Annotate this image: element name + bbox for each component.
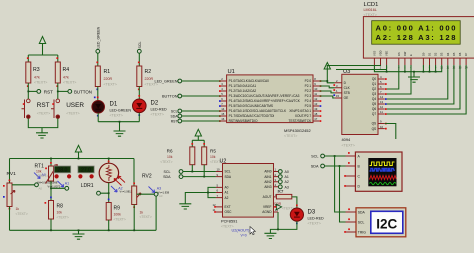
svg-text:Q4: Q4 — [372, 97, 376, 101]
svg-text:BUTTON: BUTTON — [74, 89, 92, 94]
wire RV2 to bottom rail — [134, 196, 156, 230]
wire U3 QS out — [385, 124, 396, 140]
wire U1 P2.1 to U3 CLK — [319, 86, 334, 88]
svg-text:P1.0/TA0CLK/ACLK/A0/CA0: P1.0/TA0CLK/ACLK/A0/CA0 — [229, 79, 270, 83]
ground analog section — [73, 234, 85, 239]
ground under LCD — [408, 77, 420, 82]
svg-text:P1.1/TA0.0/A1/CA1: P1.1/TA0.0/A1/CA1 — [229, 84, 257, 88]
svg-text:P2.5: P2.5 — [305, 104, 312, 108]
thermistor RT1 — [35, 159, 58, 184]
U1 left pin numbers — [221, 77, 225, 121]
U3 right pin stubs Q0-Q7 — [378, 79, 385, 129]
svg-text:11: 11 — [314, 92, 317, 96]
svg-text:<TEXT>: <TEXT> — [151, 113, 164, 117]
svg-text:SCL: SCL — [225, 170, 231, 174]
node LED_GREEN terminal above R1 — [96, 26, 101, 53]
junction LDR/R9/A2 — [108, 192, 110, 194]
svg-text:LED-RED: LED-RED — [308, 217, 325, 221]
node LED_GREEN at U1 — [154, 79, 220, 84]
svg-text:17: 17 — [314, 117, 318, 121]
wire R2 to D2 — [138, 87, 140, 100]
U3 left pin names — [344, 81, 351, 100]
oscilloscope — [344, 152, 402, 191]
svg-text:A3: A3 — [157, 187, 161, 191]
wire LDR to node A2 and R9 — [100, 183, 108, 203]
U2 EXT/OSC tips — [214, 206, 216, 208]
svg-text:15: 15 — [336, 94, 340, 98]
resistor R3 — [26, 57, 48, 87]
svg-text:AIN1: AIN1 — [264, 175, 271, 179]
svg-text:U2: U2 — [220, 159, 227, 165]
svg-text:12: 12 — [380, 105, 384, 109]
node A2 analog — [97, 191, 101, 195]
svg-text:LCD1: LCD1 — [364, 2, 379, 8]
wire LCD E to U3 Q3 — [387, 65, 411, 94]
svg-text:RST: RST — [171, 120, 178, 124]
junctions on VCC rail — [50, 158, 110, 160]
svg-text:SDA: SDA — [163, 175, 171, 179]
svg-text:CLK: CLK — [344, 86, 351, 90]
resistor R9 — [106, 199, 126, 222]
svg-text:U1: U1 — [228, 69, 235, 75]
U3 right pin numbers and tips — [380, 75, 384, 129]
wire R1 to D1 — [97, 87, 99, 101]
svg-text:RS: RS — [397, 52, 401, 56]
svg-text:18: 18 — [314, 112, 318, 116]
svg-text:AOUT: AOUT — [263, 195, 272, 199]
svg-text:OSC: OSC — [225, 210, 233, 214]
power arrow analog section — [75, 145, 81, 158]
pot RV1 — [3, 159, 28, 216]
wire VEE aux — [336, 69, 387, 71]
svg-text:10k: 10k — [167, 155, 173, 159]
svg-text:<TEXT>: <TEXT> — [57, 215, 69, 219]
svg-text:P2.4: P2.4 — [305, 99, 312, 103]
svg-text:P2.1: P2.1 — [305, 84, 312, 88]
wire R4 to button USER — [57, 83, 59, 99]
svg-text:AIN3: AIN3 — [264, 185, 271, 189]
svg-text:SDA: SDA — [171, 115, 179, 119]
wire R6 to SCL row — [191, 165, 193, 172]
probe A3 — [149, 187, 170, 199]
svg-text:<TEXT>: <TEXT> — [36, 174, 48, 178]
svg-text:19: 19 — [314, 107, 318, 111]
U1 right pin names — [289, 79, 313, 123]
wire RV2 wiper to node A3 — [137, 193, 155, 195]
svg-text:Q5: Q5 — [372, 102, 376, 106]
LED D3 (red, on) — [290, 205, 324, 226]
node RST at U1 — [171, 119, 221, 124]
wire SCL to R2 — [138, 53, 140, 66]
ground under buttons — [36, 133, 48, 138]
svg-text:A0: A0 — [285, 170, 289, 174]
wire buttons to ground rail — [28, 119, 58, 133]
svg-text:Q0: Q0 — [372, 77, 376, 81]
svg-text:A2: A2 — [285, 180, 289, 184]
ground under D3 — [264, 233, 276, 238]
svg-text:1k: 1k — [16, 207, 20, 211]
LCD pin name labels — [372, 50, 468, 56]
wire D1/D2 ground rail — [98, 113, 139, 131]
power arrow above R5/R6 — [195, 129, 201, 140]
svg-text:11: 11 — [380, 110, 383, 114]
svg-text:RW: RW — [403, 51, 407, 56]
op IC U2 PCF8591 — [220, 159, 274, 229]
LED D1 (green, off) — [92, 97, 131, 118]
wire LCD RS to U3 Q2 — [387, 65, 399, 89]
U1 right pin numbers — [314, 77, 318, 121]
wire R9 to bottom rail — [108, 220, 110, 230]
svg-text:U2(AOUT): U2(AOUT) — [232, 228, 251, 232]
svg-text:RST/NMI/SBWTDIO: RST/NMI/SBWTDIO — [229, 119, 258, 123]
svg-text:10: 10 — [217, 168, 221, 172]
resistor R5 — [202, 143, 223, 165]
svg-text:A1: A1 — [65, 182, 69, 186]
svg-text:<TEXT>: <TEXT> — [104, 83, 117, 87]
wire U1 P2.2 to U3 STB — [319, 91, 334, 93]
node SCL at U1 — [171, 109, 221, 114]
svg-text:13: 13 — [314, 102, 318, 106]
svg-text:D5: D5 — [452, 52, 456, 56]
resistor R1 — [95, 62, 117, 91]
svg-text:BUTTON: BUTTON — [162, 95, 178, 99]
svg-text:R2: R2 — [145, 69, 152, 75]
wire LED_GREEN to R1 — [97, 53, 99, 66]
power VCC arrow top-left — [39, 37, 45, 56]
svg-text:P2.2: P2.2 — [305, 89, 312, 93]
svg-text:SCL: SCL — [138, 42, 142, 49]
ground under D1/D2 — [114, 131, 126, 136]
switch RST pushbutton — [22, 99, 51, 118]
svg-text:LM016L: LM016L — [364, 8, 377, 12]
svg-text:14: 14 — [221, 107, 225, 111]
node RST terminal — [27, 89, 53, 94]
node A3 at U2 — [278, 185, 288, 189]
probe label U2(AOUT) — [232, 228, 251, 237]
resistor R6 — [160, 143, 195, 165]
svg-text:R1: R1 — [104, 69, 111, 75]
svg-text:28.0: 28.0 — [57, 168, 67, 174]
power arrow between U1 and U3 — [324, 63, 330, 83]
svg-text:16: 16 — [221, 117, 225, 121]
svg-text:A2: A2 — [225, 196, 229, 200]
svg-text:Q3: Q3 — [372, 92, 376, 96]
wire U2 address pins A0/A1/A2 to ground — [185, 187, 216, 203]
wire AGND and D3 to ground — [270, 212, 297, 233]
svg-text:VREF: VREF — [263, 205, 272, 209]
op IC U3 4094 — [342, 69, 379, 148]
svg-text:SDA: SDA — [311, 165, 319, 169]
LDR LDR1 — [81, 159, 125, 190]
svg-text:P2.3: P2.3 — [305, 94, 312, 98]
U2 left pin names — [225, 170, 233, 215]
wire SCL junction to I2C debugger — [335, 156, 346, 212]
svg-text:VEE: VEE — [385, 51, 389, 56]
svg-text:<TEXT>: <TEXT> — [110, 114, 123, 118]
mouse cursor — [250, 227, 255, 235]
svg-text:<TEXT>: <TEXT> — [114, 217, 126, 221]
resistor R8 — [45, 197, 69, 220]
LCD pin numbers — [374, 67, 468, 70]
wire R3 to button RST — [27, 83, 29, 99]
U1 right pin stubs — [313, 81, 319, 121]
node SCL at U2 — [164, 170, 216, 174]
svg-text:P2.0: P2.0 — [305, 79, 312, 83]
wire R8 to bottom rail — [50, 219, 52, 230]
svg-text:R3: R3 — [33, 67, 40, 73]
wire D1 to ground rail — [97, 113, 99, 122]
svg-text:AGND: AGND — [262, 210, 272, 214]
svg-text:I2C: I2C — [376, 217, 397, 232]
svg-text:A1: A1 — [285, 175, 289, 179]
wire analog bottom rail — [10, 230, 157, 234]
svg-text:D1: D1 — [428, 52, 432, 56]
svg-text:Q6: Q6 — [372, 107, 376, 111]
node SDA at U2 — [163, 175, 216, 179]
resistor R2 — [137, 62, 158, 91]
LDR1 value display — [78, 166, 94, 178]
svg-text:R8: R8 — [57, 204, 64, 210]
wire U1 P2.3 to U3 OE — [319, 96, 334, 98]
wire R5/R6 top rail — [192, 140, 204, 147]
svg-text:<TEXT>: <TEXT> — [160, 160, 172, 164]
U2 left pin numbers — [213, 168, 221, 213]
svg-text:10k: 10k — [210, 155, 216, 159]
svg-text:<TEXT>: <TEXT> — [284, 134, 297, 138]
svg-text:Q2: Q2 — [372, 87, 376, 91]
svg-text:P1.4/TA0.2/SMCLK/A4/VREF+/VERE: P1.4/TA0.2/SMCLK/A4/VREF+/VEREF+/CA4/TCK — [229, 99, 301, 103]
svg-text:SDA: SDA — [225, 175, 232, 179]
resistor R7 — [273, 189, 294, 210]
node BUTTON at U1 — [162, 94, 221, 99]
svg-text:MSP430G2452: MSP430G2452 — [284, 128, 311, 133]
svg-text:LED_GREEN: LED_GREEN — [97, 26, 101, 48]
svg-text:SDA: SDA — [358, 211, 366, 215]
svg-text:LED-GREEN: LED-GREEN — [110, 109, 132, 113]
U2 right pin numbers — [275, 168, 279, 212]
svg-text:V=0: V=0 — [241, 233, 247, 237]
wire LCD D5 to U3 Q5 — [387, 65, 454, 104]
svg-text:V+=1.9812: V+=1.9812 — [120, 189, 133, 193]
svg-text:<TEXT>: <TEXT> — [63, 80, 76, 84]
wire analog VCC rail — [10, 158, 135, 160]
node SCL terminal above R2 — [137, 42, 142, 54]
svg-text:R9: R9 — [114, 206, 121, 212]
svg-text:10k: 10k — [57, 210, 63, 214]
svg-text:R6: R6 — [167, 149, 173, 154]
svg-text:R4: R4 — [63, 67, 70, 73]
svg-text:VSS: VSS — [372, 51, 376, 56]
wire R7 to D3 — [292, 197, 297, 208]
svg-text:AIN0: AIN0 — [264, 170, 271, 174]
svg-text:TEST/SBWTCK: TEST/SBWTCK — [289, 119, 313, 123]
node A2 at U2 — [278, 180, 288, 184]
node A1 analog — [65, 186, 69, 190]
svg-text:<TEXT>: <TEXT> — [34, 80, 47, 84]
wire VCC rail to R3/R4 — [28, 55, 58, 62]
svg-text:R5: R5 — [210, 149, 216, 154]
node A0 at U2 — [278, 170, 288, 174]
power terminal at VREF — [275, 204, 282, 209]
svg-text:<TEXT>: <TEXT> — [66, 112, 79, 116]
wire VDD to VCC — [327, 65, 380, 69]
svg-text:P1.2/TA0.1/A2/CA2: P1.2/TA0.1/A2/CA2 — [229, 89, 257, 93]
svg-text:<TEXT>: <TEXT> — [16, 212, 28, 216]
svg-text:E: E — [409, 54, 413, 56]
node SCL at scope — [311, 154, 345, 159]
svg-text:AIN2: AIN2 — [264, 180, 271, 184]
junction A1 bus — [207, 192, 209, 194]
svg-text:USER: USER — [66, 102, 84, 109]
node A0 analog — [35, 183, 43, 191]
U2 right pin names — [262, 170, 272, 215]
junctions bottom rail — [50, 229, 135, 231]
svg-text:XOUT/P2.7: XOUT/P2.7 — [295, 114, 312, 118]
svg-text:SCL: SCL — [311, 155, 318, 159]
svg-text:XIN/P2.6/TA0.1: XIN/P2.6/TA0.1 — [289, 109, 311, 113]
U1 left pin names — [229, 79, 301, 123]
svg-text:15: 15 — [221, 112, 225, 116]
svg-text:RST: RST — [44, 89, 53, 94]
svg-text:10: 10 — [380, 125, 384, 129]
svg-text:100k: 100k — [114, 212, 122, 216]
svg-text:LED_GREEN: LED_GREEN — [154, 80, 177, 84]
I2C debugger — [344, 208, 406, 237]
svg-text:LED-RED: LED-RED — [151, 108, 168, 112]
svg-text:47k: 47k — [34, 76, 40, 80]
svg-text:<TEXT>: <TEXT> — [37, 112, 50, 116]
U2 right pin stubs — [274, 172, 279, 213]
svg-text:1k: 1k — [140, 210, 144, 214]
svg-text:P1.3/ADC10CLK/CAOUT/A3/VREF-/V: P1.3/ADC10CLK/CAOUT/A3/VREF-/VEREF-/CA3 — [229, 94, 300, 98]
probe A1 — [48, 181, 70, 188]
node A1 at U2 — [278, 175, 288, 179]
svg-text:Q7: Q7 — [372, 112, 376, 116]
probe A0 — [34, 173, 58, 185]
svg-text:27.0: 27.0 — [81, 168, 91, 174]
U3 right pin names — [372, 77, 377, 131]
svg-text:<TEXT>: <TEXT> — [308, 222, 321, 226]
junction RT1/R8/A1 — [50, 187, 52, 189]
wire LCD ground rail VSS/VEE/RW/D0-D3 — [374, 65, 441, 77]
U1 right pin tips — [320, 80, 322, 122]
U1 left pin stubs — [221, 81, 227, 121]
wire RV1 wiper to node A0 — [12, 184, 35, 186]
svg-text:47k: 47k — [63, 76, 69, 80]
svg-text:A0: A0 — [39, 187, 43, 191]
svg-text:SCL: SCL — [358, 221, 365, 225]
svg-text:10k: 10k — [36, 169, 42, 173]
svg-text:<TEXT>: <TEXT> — [140, 215, 152, 219]
svg-text:<TEXT>: <TEXT> — [342, 143, 355, 147]
svg-text:P1.5/TA0.0/SCLK/A5/CA5/TMS: P1.5/TA0.0/SCLK/A5/CA5/TMS — [229, 104, 273, 108]
svg-text:P1.7/SDI/SDA/A7/CA7/TDO/TDI: P1.7/SDI/SDA/A7/CA7/TDO/TDI — [229, 114, 275, 118]
U3 left pin stubs — [335, 83, 342, 98]
LCD pin stubs — [374, 58, 466, 65]
svg-text:12: 12 — [314, 97, 318, 101]
LED D2 (red, on) — [133, 95, 168, 117]
svg-text:STB: STB — [344, 91, 350, 95]
wire LCD D7 to U3 Q7 — [387, 65, 466, 114]
op IC U1 MSP430G2452 — [227, 69, 313, 138]
svg-text:D1: D1 — [110, 102, 118, 108]
svg-text:220R: 220R — [104, 77, 113, 81]
ground for U2 address — [179, 204, 191, 209]
svg-text:10: 10 — [314, 87, 318, 91]
svg-text:D6: D6 — [458, 52, 462, 56]
junction D1/D2 rail — [119, 121, 121, 123]
svg-text:SCL: SCL — [164, 170, 171, 174]
svg-text:A3: A3 — [285, 185, 289, 189]
svg-text:P1.6/TA0.1/SDO/SCL/A6/CA6/TDI/: P1.6/TA0.1/SDO/SCL/A6/CA6/TDI/TCLK — [229, 109, 287, 113]
junction AGND rail — [277, 229, 279, 231]
RT1 value display — [54, 166, 71, 178]
svg-text:14: 14 — [380, 95, 384, 99]
junction power/P2.0 — [326, 80, 328, 82]
svg-text:D4: D4 — [446, 52, 450, 56]
svg-text:RST: RST — [37, 102, 50, 109]
U2 left pin stubs — [216, 172, 223, 213]
wire U1 P2.0 to U3 D — [319, 81, 334, 83]
svg-text:LDR1: LDR1 — [81, 183, 94, 189]
svg-text:Q1: Q1 — [372, 82, 376, 86]
svg-text:D0: D0 — [421, 52, 425, 56]
svg-text:EXT: EXT — [225, 205, 231, 209]
svg-text:V+=1.8072: V+=1.8072 — [48, 184, 61, 188]
svg-text:13: 13 — [380, 100, 384, 104]
node A3 analog — [154, 192, 158, 196]
svg-text:TRIG: TRIG — [358, 231, 366, 235]
resistor R4 — [55, 57, 76, 87]
svg-text:D2: D2 — [434, 52, 438, 56]
wire RV1 to bottom rail — [9, 207, 11, 231]
svg-text:R7: R7 — [278, 189, 284, 194]
svg-text:PCF8591: PCF8591 — [221, 219, 237, 224]
probe A2 — [111, 186, 133, 193]
svg-text:A1: A1 — [225, 191, 229, 195]
svg-text:220R: 220R — [145, 77, 154, 81]
wire LCD D6 to U3 Q6 — [387, 65, 460, 109]
U3 left pin numbers — [336, 79, 340, 98]
node SDA at U1 — [171, 114, 221, 119]
svg-text:QS: QS — [372, 122, 377, 126]
svg-text:4094: 4094 — [342, 137, 351, 142]
junctions on LCD ground rail — [386, 71, 437, 73]
svg-text:D7: D7 — [464, 52, 468, 56]
svg-text:VDD: VDD — [379, 50, 383, 56]
svg-text:QS: QS — [372, 127, 377, 131]
node BUTTON terminal — [57, 89, 92, 94]
wire SDA junction to I2C debugger — [340, 166, 346, 222]
svg-text:D3: D3 — [308, 210, 316, 216]
svg-text:RV2: RV2 — [142, 174, 152, 180]
wire RT1 to R8 and node A1 — [51, 181, 65, 201]
svg-text:OE: OE — [344, 96, 349, 100]
U1 left pin tips — [219, 80, 221, 122]
switch USER pushbutton — [51, 99, 84, 118]
wire LCD D4 to U3 Q4 — [387, 65, 448, 99]
svg-text:A0: A0 — [225, 186, 229, 190]
svg-text:SCL: SCL — [171, 110, 178, 114]
svg-text:RV1: RV1 — [7, 171, 17, 177]
LCD LCD1 LM016L — [363, 2, 474, 58]
svg-text:D3: D3 — [440, 52, 444, 56]
node SDA at scope — [311, 164, 346, 169]
svg-text:A3: A3 — [159, 194, 163, 198]
svg-text:D2: D2 — [151, 101, 159, 107]
pot RV2 — [132, 159, 152, 220]
wire R5 to SDA row — [203, 165, 205, 177]
